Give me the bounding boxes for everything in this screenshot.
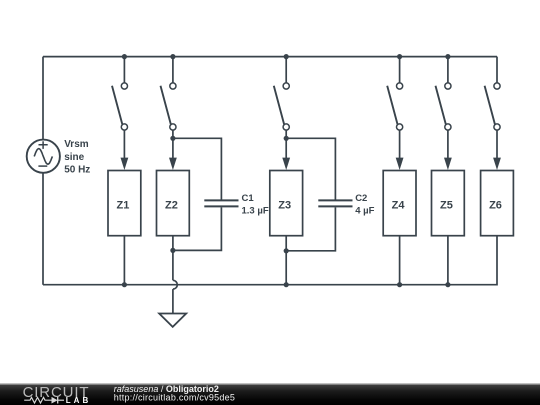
node Z3 top junction [284,136,289,141]
node top rail junction SW3 [284,54,289,59]
node bottom rail junction Z3 [284,282,289,287]
svg-text:Z2: Z2 [165,199,178,211]
switch SW3 [274,57,290,170]
switch SW4 [387,57,403,170]
node bottom rail junction Z5 [445,282,450,287]
node top rail junction SW4 [397,54,402,59]
impedance Z6 [481,171,514,236]
svg-text:50 Hz: 50 Hz [64,164,90,175]
logo CIRCUIT [23,384,90,401]
wire top rail [43,56,497,58]
logo LAB [66,396,91,405]
svg-text:C2: C2 [355,193,367,204]
logo waveform resistor and diode [24,397,64,404]
wire Z4 bottom [399,236,401,285]
svg-text:1.3 µF: 1.3 µF [242,205,269,216]
svg-text:sine: sine [64,152,84,163]
impedance Z5 [432,171,465,236]
wire left vertical (source to rails) [42,57,44,285]
impedance Z2 [157,171,190,236]
node top rail junction SW5 [445,54,450,59]
node bottom rail junction Z4 [397,282,402,287]
svg-text:Z3: Z3 [278,199,291,211]
svg-text:Z4: Z4 [392,199,406,211]
ground [159,314,186,327]
footer text line 2 [114,393,235,403]
node top rail junction SW2 [170,54,175,59]
wire Z1 bottom [123,236,125,285]
svg-text:Z5: Z5 [440,199,453,211]
wire bottom rail [43,236,497,285]
impedance Z1 [108,171,141,236]
label C1 1.3 uF [242,193,269,216]
wire Z2 bottom to ground node [172,236,174,281]
svg-text:Z1: Z1 [116,199,129,211]
footer bar [0,384,540,405]
voltage source V1 Vrsm [27,140,60,173]
label C2 4 uF [355,193,374,216]
svg-text:4 µF: 4 µF [355,205,374,216]
switch SW2 [161,57,177,170]
node top rail junction SW1 [122,54,127,59]
svg-text:Z6: Z6 [489,199,502,211]
switch SW6 [485,57,501,170]
capacitor C2 [286,138,352,251]
switch SW5 [436,57,452,170]
impedance Z3 [270,171,303,236]
wire Z3 bottom [285,236,287,285]
node Z2 top junction [170,136,175,141]
wire Z5 bottom [447,236,449,285]
svg-text:Vrsm: Vrsm [64,139,89,150]
svg-text:LAB: LAB [66,396,91,405]
node bottom rail junction Z1 [122,282,127,287]
node Z3 bottom junction [284,248,289,253]
wire to ground [172,289,174,313]
wire hop over bottom rail [173,280,177,289]
impedance Z4 [383,171,416,236]
node Z2 bottom junction [170,248,175,253]
svg-text:C1: C1 [242,193,255,204]
switch SW1 [112,57,128,170]
capacitor C1 [173,138,239,250]
footer text line 1 [114,384,219,394]
svg-text:http://circuitlab.com/cv95de5: http://circuitlab.com/cv95de5 [114,393,235,403]
label V1 value Vrsm sine 50 Hz [64,139,90,175]
